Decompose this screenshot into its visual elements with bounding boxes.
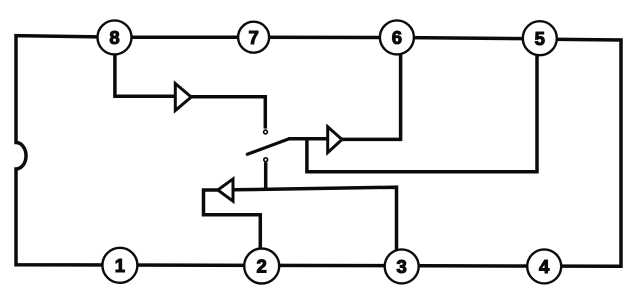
top edge wire pin7-pin6 xyxy=(254,36,397,40)
pin 5 xyxy=(523,21,557,55)
wire: U1c input from pin 3 riser xyxy=(233,187,397,266)
pin 7 xyxy=(238,22,269,53)
svg-text:1: 1 xyxy=(115,255,125,276)
switch S1 top contact xyxy=(264,130,268,134)
svg-text:5: 5 xyxy=(535,28,545,49)
pin 4 xyxy=(527,249,561,283)
switch S1 blade xyxy=(247,139,289,155)
pin 8 xyxy=(98,20,132,54)
pin 6 xyxy=(380,20,414,54)
wire: U1c output to pin 2 xyxy=(204,190,261,266)
wire: bottom contact drop to U1c input wire xyxy=(264,162,268,190)
buffer U1b (middle, points right) xyxy=(328,127,342,153)
svg-text:2: 2 xyxy=(257,256,267,277)
svg-text:7: 7 xyxy=(248,27,258,48)
svg-text:4: 4 xyxy=(539,256,550,277)
svg-text:6: 6 xyxy=(392,27,402,48)
svg-text:8: 8 xyxy=(109,27,119,48)
pin 2 xyxy=(244,249,279,284)
wire: junction drop to pin 5 branch xyxy=(307,38,537,172)
pin 3 xyxy=(385,249,419,283)
top edge wire pin6-pin5 xyxy=(397,38,540,39)
switch S1 bottom contact xyxy=(264,158,268,162)
buffer U1c (bottom, points left) xyxy=(218,179,233,201)
svg-text:3: 3 xyxy=(397,256,407,277)
wire: U1a output right then down to switch top contact xyxy=(191,97,265,129)
wire: blade common to buffer U1b input xyxy=(288,137,328,141)
IC DIP-8 package body outline xyxy=(16,36,621,267)
wire: pin 8 drop to buffer U1a input xyxy=(115,37,175,96)
wire: U1b output right then up to pin 6 xyxy=(342,37,401,139)
top edge wire pin8-pin7 xyxy=(115,35,254,39)
pin 1 xyxy=(102,248,137,283)
buffer U1a (top, points right) xyxy=(175,84,191,111)
